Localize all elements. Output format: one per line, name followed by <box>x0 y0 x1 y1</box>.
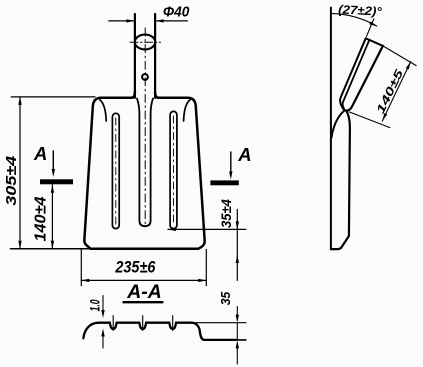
svg-text:A-A: A-A <box>126 281 161 303</box>
svg-text:140±5: 140±5 <box>375 67 407 115</box>
svg-text:A: A <box>33 143 47 164</box>
svg-text:1.0: 1.0 <box>87 299 103 311</box>
svg-text:140±4: 140±4 <box>33 196 50 241</box>
svg-text:35: 35 <box>219 291 233 306</box>
svg-text:(27±2)°: (27±2)° <box>338 2 382 18</box>
svg-text:235±6: 235±6 <box>115 259 157 277</box>
svg-text:35±4: 35±4 <box>218 199 234 228</box>
svg-text:A: A <box>237 144 251 165</box>
svg-text:305±4: 305±4 <box>3 155 20 206</box>
svg-text:Φ40: Φ40 <box>163 4 190 21</box>
